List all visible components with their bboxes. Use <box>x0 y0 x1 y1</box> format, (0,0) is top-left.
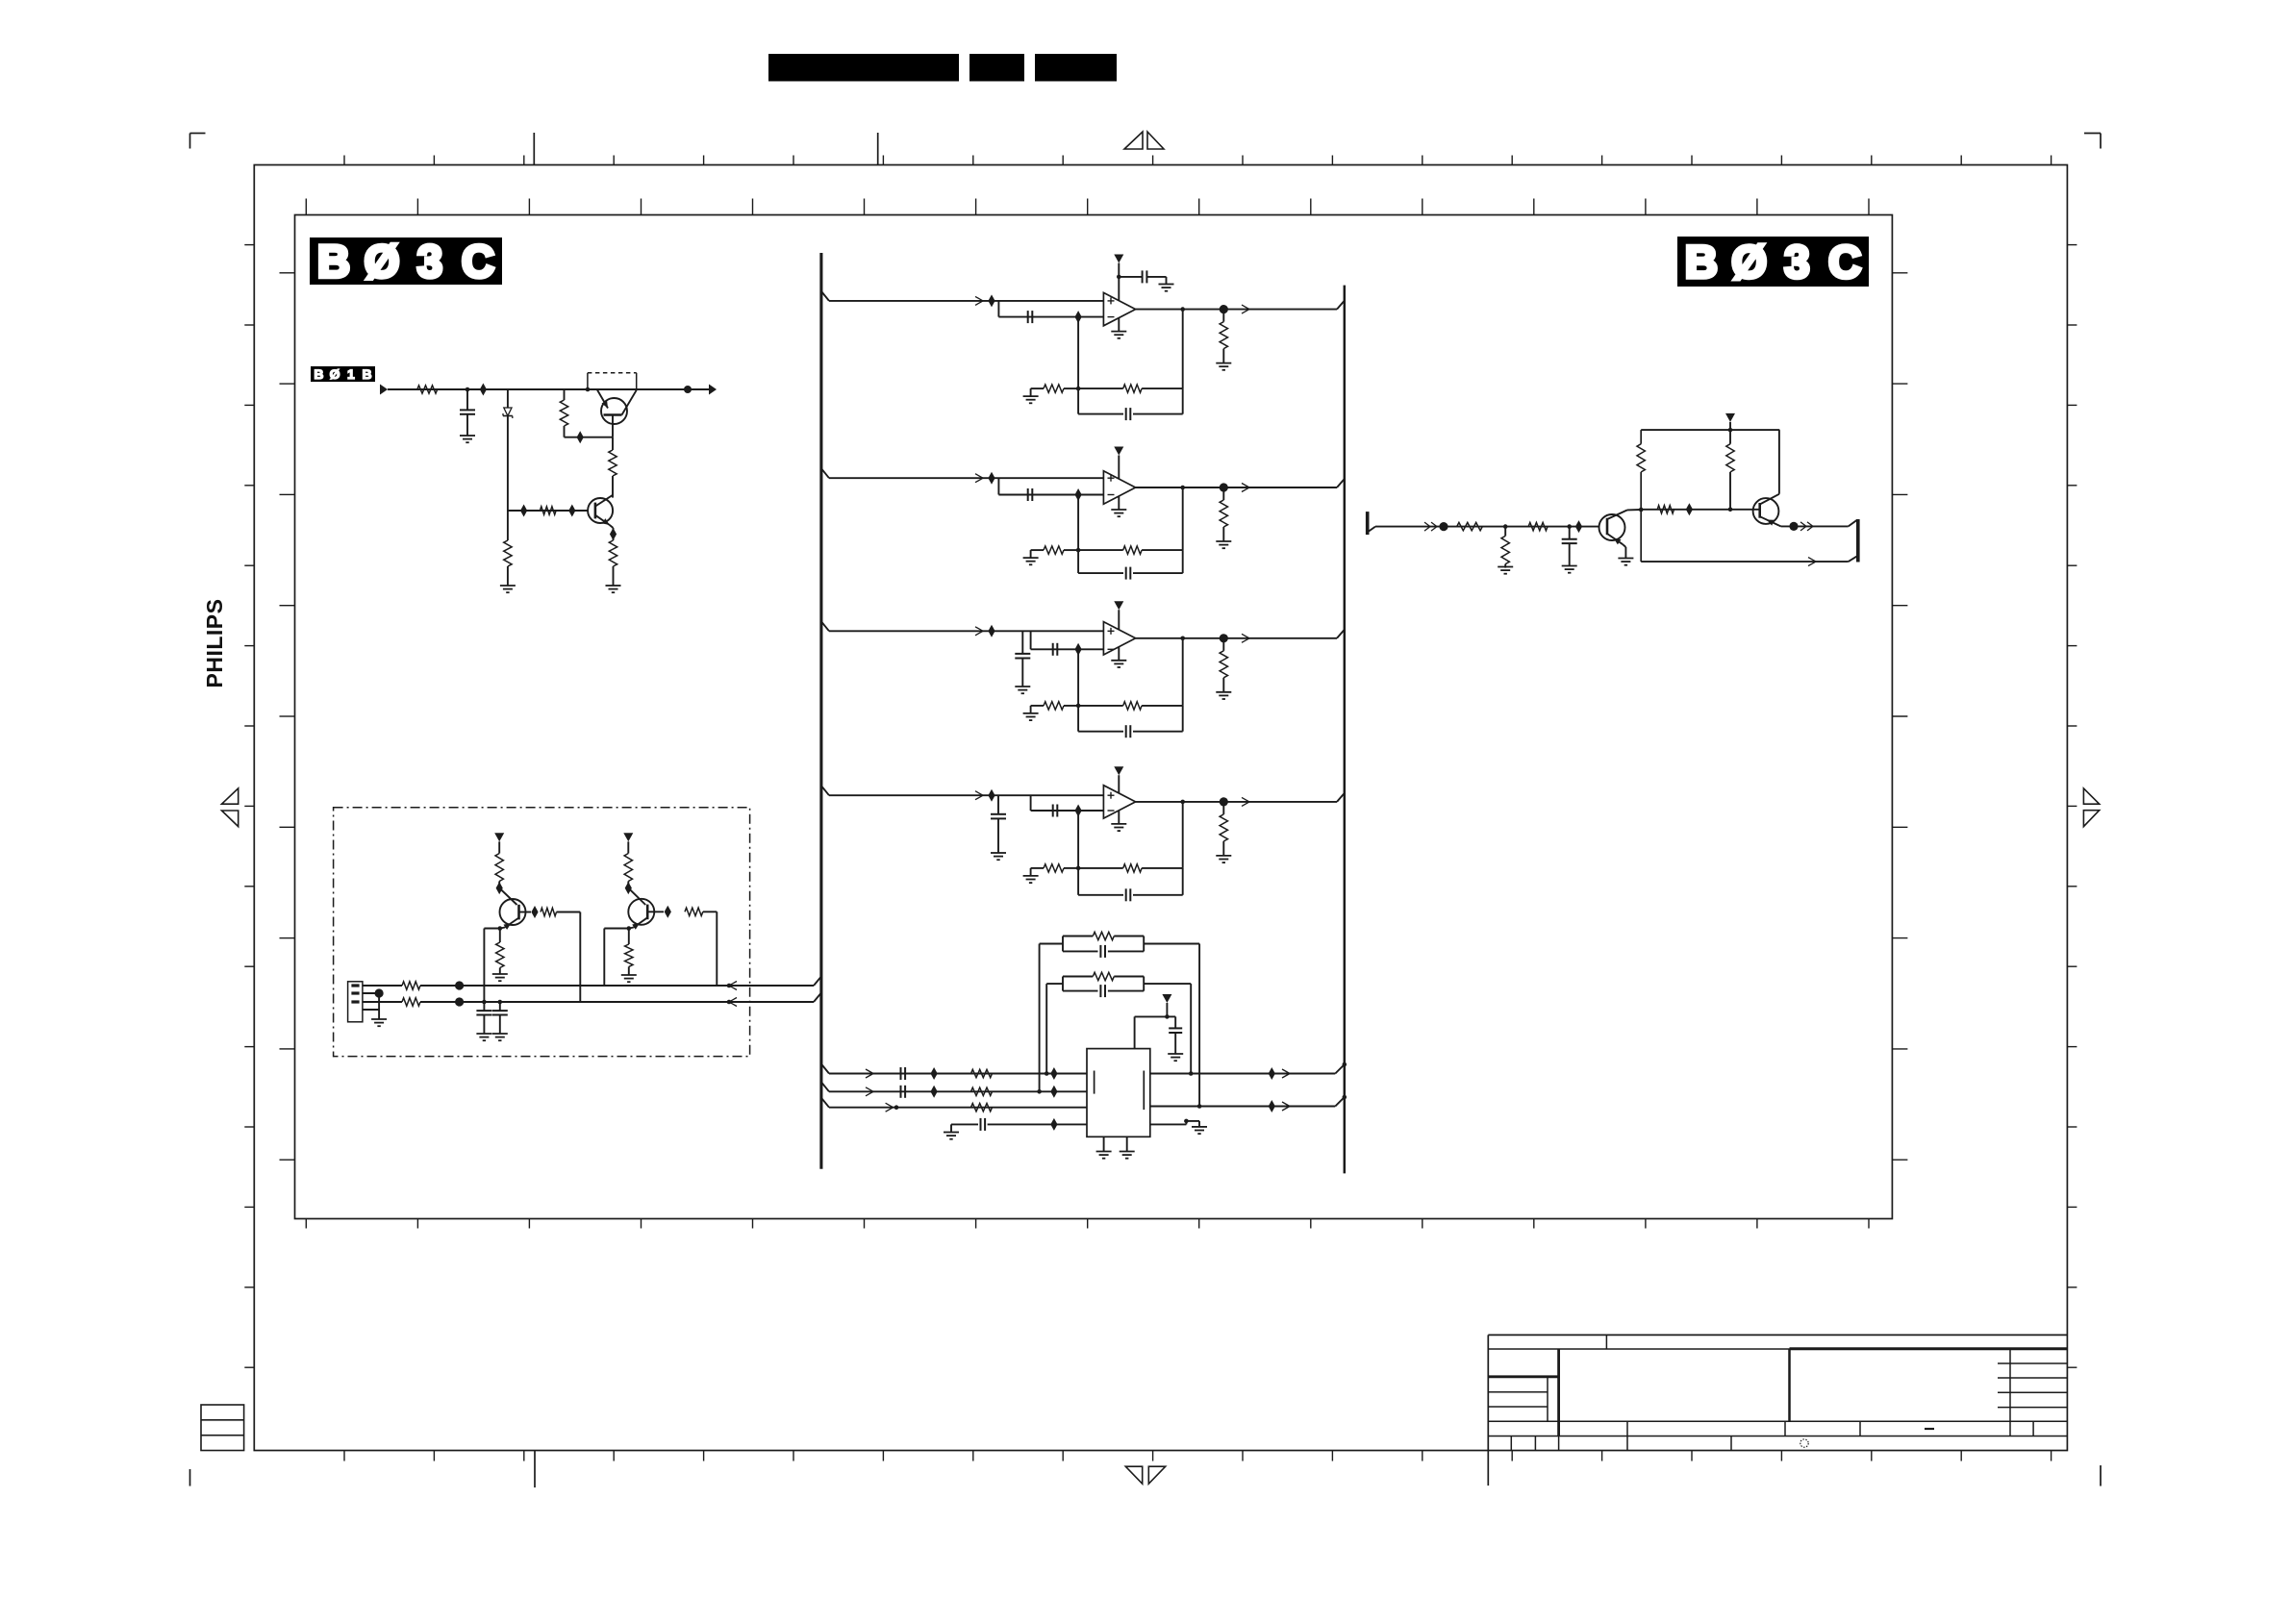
svg-text:1: 1 <box>347 366 355 382</box>
svg-text:B: B <box>1685 237 1718 287</box>
svg-text:B: B <box>317 236 350 287</box>
svg-text:PHILIPS: PHILIPS <box>202 599 227 688</box>
svg-text:C: C <box>1828 237 1861 287</box>
svg-text:Ø: Ø <box>365 236 400 287</box>
svg-text:Ø: Ø <box>1731 237 1767 287</box>
svg-text:Ø: Ø <box>330 366 340 382</box>
svg-text:B: B <box>314 366 323 382</box>
svg-text:C: C <box>462 236 494 287</box>
svg-text:3: 3 <box>417 236 442 287</box>
svg-text:B: B <box>363 366 372 382</box>
svg-text:3: 3 <box>1784 237 1809 287</box>
